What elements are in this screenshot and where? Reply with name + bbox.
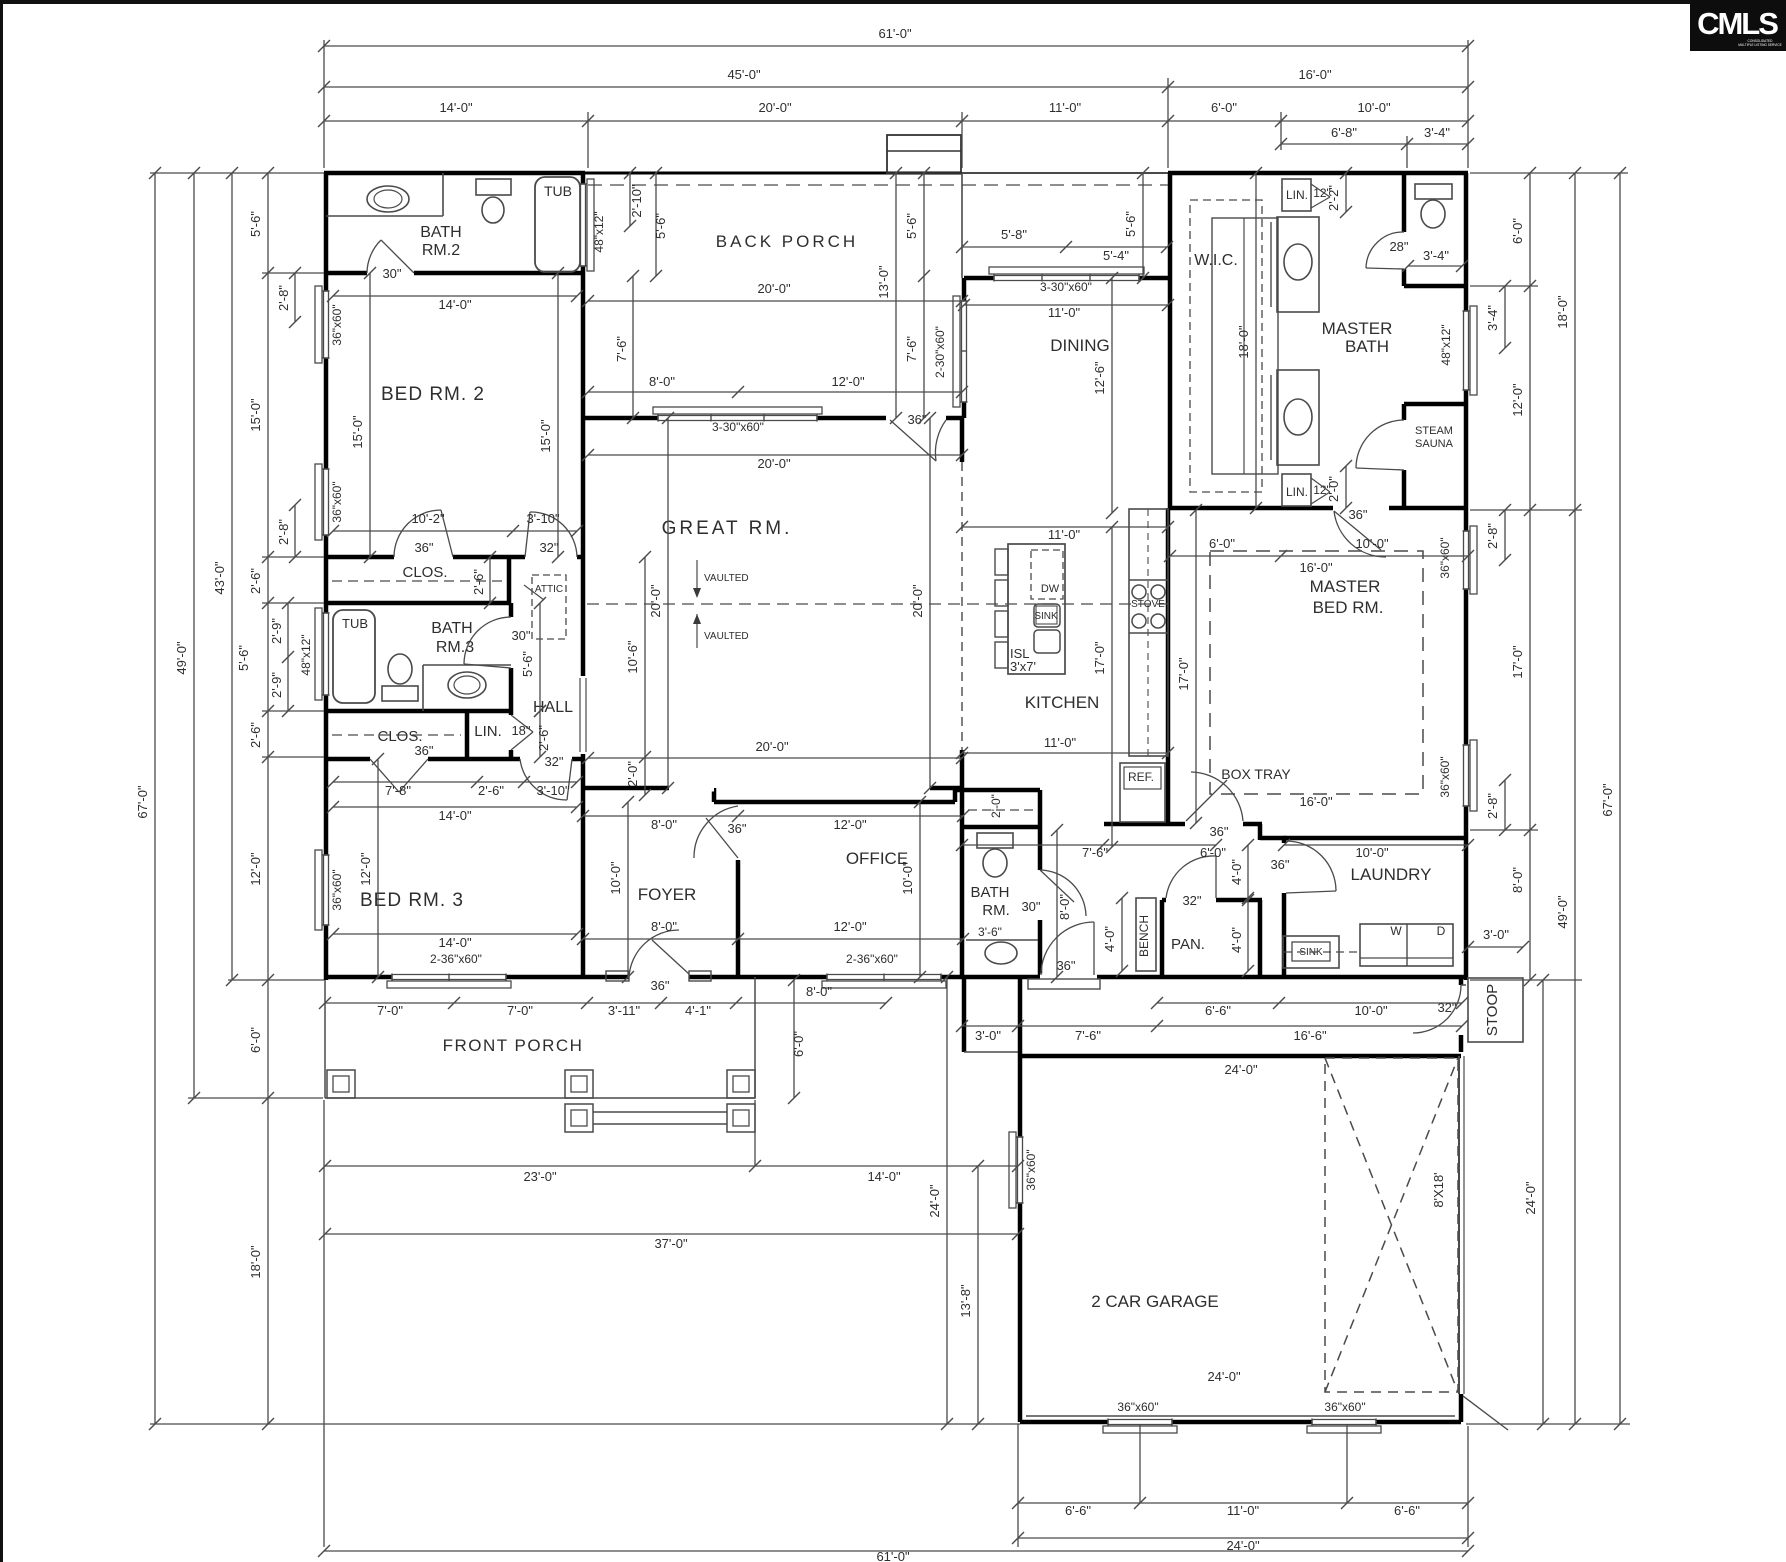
master vanity upper [1277, 217, 1319, 312]
svg-text:16'-0": 16'-0" [1298, 67, 1332, 82]
dim 5'-6 hall bath3 [539, 603, 541, 711]
door 32 hall to bed rm3 [520, 756, 572, 763]
svg-text:15'-0": 15'-0" [350, 415, 365, 449]
svg-text:8'X18': 8'X18' [1431, 1172, 1446, 1207]
dim 14'-0 bed rm2 top [333, 295, 577, 297]
wall bath rm2 bottom [326, 271, 367, 276]
svg-text:BACK PORCH: BACK PORCH [716, 232, 858, 251]
svg-text:2'-8": 2'-8" [276, 519, 291, 545]
dim 5'-6 dining right [1142, 173, 1144, 278]
kitchen island stools [995, 549, 1008, 575]
window 2-30x60 dining west wall [961, 301, 968, 402]
dim 2'-0 master lower [1345, 466, 1347, 508]
wall jog master bed to laundry [1258, 824, 1263, 840]
wall hall/closet3 bottom [326, 757, 370, 762]
door 36 front entry [629, 974, 689, 981]
box tray dashed master bed [1210, 551, 1423, 794]
svg-text:36"x60": 36"x60" [330, 304, 344, 345]
ext lines top [323, 40, 325, 168]
svg-text:MASTER: MASTER [1322, 319, 1393, 338]
svg-text:12'-0": 12'-0" [1510, 383, 1525, 417]
wall closet2 bottom [326, 601, 511, 606]
svg-text:MULTIPLE LISTING SERVICE: MULTIPLE LISTING SERVICE [1738, 43, 1781, 47]
linen upper master [1282, 179, 1311, 211]
svg-text:12'-6": 12'-6" [1092, 361, 1107, 395]
porch columns row2 + steps [565, 1104, 593, 1132]
vaulted ridge dashed [587, 603, 1168, 605]
svg-text:2-30"x60": 2-30"x60" [933, 326, 947, 378]
dim right chain 6/12/17/8 [1529, 173, 1531, 980]
dim 49'-0 left [193, 173, 195, 1098]
wall foyer/office divider [736, 860, 741, 977]
svg-text:3'-4": 3'-4" [1423, 248, 1449, 263]
dim porch 6'-0 right [793, 980, 795, 1098]
dim 8/12 foyer office bottom [583, 938, 963, 940]
dim 67'-0 right [1619, 173, 1621, 1424]
svg-text:7'-6": 7'-6" [904, 336, 919, 362]
page border left [0, 0, 3, 1562]
wall master bed south [1243, 822, 1262, 827]
svg-text:48"x12": 48"x12" [592, 211, 606, 252]
window 2-36x60 office south wall [827, 974, 941, 981]
master toilet [1415, 184, 1452, 199]
vaulted arrows [696, 560, 698, 594]
svg-text:LIN.: LIN. [474, 723, 502, 740]
svg-text:12'-0": 12'-0" [358, 852, 373, 886]
svg-text:8'-0": 8'-0" [651, 817, 677, 832]
dim 5'-6 porch left sub [655, 173, 657, 276]
svg-text:11'-0": 11'-0" [1227, 1503, 1260, 1518]
svg-text:61'-0": 61'-0" [878, 26, 912, 41]
dim 13'-0 porch right [895, 173, 897, 418]
svg-text:PAN.: PAN. [1171, 936, 1205, 953]
wall closet2 east [507, 557, 512, 603]
svg-text:4'-0": 4'-0" [1229, 859, 1244, 885]
svg-text:STEAM: STEAM [1415, 425, 1453, 437]
svg-text:BED RM. 3: BED RM. 3 [360, 890, 464, 911]
wall garage east [1459, 977, 1464, 1052]
dim 2-8 subs right [1504, 510, 1506, 560]
svg-text:24'-0": 24'-0" [1523, 1181, 1538, 1215]
svg-text:18'-0": 18'-0" [1555, 295, 1570, 329]
svg-text:32": 32" [1182, 893, 1201, 908]
svg-text:17'-0": 17'-0" [1092, 641, 1107, 675]
svg-text:3'-4": 3'-4" [1485, 305, 1500, 331]
svg-text:6'-6": 6'-6" [1065, 1503, 1091, 1518]
svg-text:4'-1": 4'-1" [685, 1003, 711, 1018]
dim 20'-0 great rm bottom [588, 757, 962, 759]
svg-text:7'-6": 7'-6" [1082, 845, 1108, 860]
svg-text:DW: DW [1041, 583, 1060, 595]
wall powder bath east [1038, 790, 1043, 870]
window 48x12 bath rm2, wall x=583 [580, 184, 587, 266]
bath rm2 toilet [476, 179, 511, 195]
dim 20'-0 great rm top [588, 454, 962, 456]
svg-text:5'-6": 5'-6" [904, 213, 919, 239]
wall bath rm3 east [509, 603, 514, 617]
svg-text:BENCH: BENCH [1137, 915, 1151, 957]
dim 5-8/5-4 dining top [962, 246, 1167, 248]
dim 10-6/2-0 great rm left [644, 557, 646, 795]
bath rm3 vanity + sink [423, 664, 511, 666]
page border top [0, 0, 1786, 4]
svg-text:KITCHEN: KITCHEN [1025, 693, 1100, 712]
dim 23/14 bottom [325, 1165, 1018, 1167]
svg-text:FRONT PORCH: FRONT PORCH [443, 1036, 584, 1055]
svg-text:7'-0": 7'-0" [377, 1003, 403, 1018]
svg-text:8'-0": 8'-0" [1510, 867, 1525, 893]
svg-text:FOYER: FOYER [638, 885, 697, 904]
svg-text:7'-0": 7'-0" [507, 1003, 533, 1018]
svg-text:20'-0": 20'-0" [755, 739, 789, 754]
wall linen closet [465, 711, 470, 759]
bath rm2 vanity + sink [326, 215, 443, 217]
wall garage west [1018, 977, 1023, 1422]
closet3 shelf dashed [332, 734, 461, 736]
svg-text:2'-8": 2'-8" [276, 285, 291, 311]
wall great rm top (porch south) [585, 416, 886, 421]
svg-text:17'-0": 17'-0" [1176, 657, 1191, 691]
svg-text:REF.: REF. [1128, 770, 1154, 784]
svg-text:20'-0": 20'-0" [758, 100, 792, 115]
svg-text:3-30"x60": 3-30"x60" [1040, 280, 1092, 294]
linen lower master [1282, 474, 1311, 506]
dim 3-4 sub right [1504, 286, 1506, 348]
svg-text:12'-0": 12'-0" [831, 374, 865, 389]
svg-text:16'-0": 16'-0" [1299, 560, 1333, 575]
svg-text:36": 36" [1348, 507, 1367, 522]
svg-text:SINK: SINK [1034, 611, 1058, 622]
svg-text:RM.2: RM.2 [422, 242, 460, 259]
wall garage top [1020, 1054, 1461, 1059]
svg-text:18": 18" [511, 723, 530, 738]
dim 2'-10 porch sub [629, 173, 631, 226]
svg-text:6'-0": 6'-0" [1510, 218, 1525, 244]
svg-text:3'-11": 3'-11" [608, 1003, 641, 1018]
svg-text:RM.: RM. [982, 902, 1010, 919]
svg-text:2'-2": 2'-2" [1326, 185, 1341, 211]
svg-text:49'-0": 49'-0" [174, 641, 189, 675]
window 48x12 master bath east wall [1463, 311, 1470, 390]
closet2 shelf dashed [332, 580, 505, 582]
svg-text:10'-0": 10'-0" [900, 861, 915, 895]
svg-text:36"x60": 36"x60" [330, 481, 344, 522]
svg-text:CLOS.: CLOS. [402, 564, 447, 581]
svg-text:36": 36" [1270, 857, 1289, 872]
dim 7'-6 porch left [632, 276, 634, 418]
wic shelving [1190, 200, 1262, 492]
laundry washer dryer [1360, 924, 1453, 966]
door 30 powder bath [1037, 870, 1044, 920]
svg-text:2-36"x60": 2-36"x60" [846, 952, 898, 966]
ext lines bottom [323, 1100, 325, 1547]
door 30 bath rm2 [367, 270, 414, 277]
svg-text:36": 36" [650, 978, 669, 993]
wall dining west [962, 278, 967, 418]
svg-text:6'-0": 6'-0" [248, 1027, 263, 1053]
dim 20'-0 great rm verticals [667, 418, 669, 788]
svg-text:32": 32" [1437, 1000, 1456, 1015]
dim left segment chain [267, 173, 269, 1424]
wall exterior south [326, 975, 1468, 980]
wall kitchen south / walkway [1104, 822, 1185, 827]
dim 24'-0 right garage [1542, 980, 1544, 1424]
window 48x12 bath rm3, left wall [323, 613, 330, 695]
svg-text:2'-9": 2'-9" [269, 618, 284, 644]
dim 10-2/3-10 bed rm2 bottom [333, 530, 577, 532]
svg-text:20'-0": 20'-0" [757, 281, 791, 296]
dim 10'-0 laundry [1284, 844, 1468, 846]
svg-text:36"x60": 36"x60" [1024, 1149, 1038, 1190]
dim 10'-0 foyer vert / office [627, 802, 629, 977]
svg-text:2 CAR GARAGE: 2 CAR GARAGE [1091, 1292, 1219, 1311]
wall laundry top [1284, 836, 1468, 841]
wall pantry top [1162, 898, 1166, 903]
svg-text:DINING: DINING [1050, 336, 1110, 355]
dim 45/16 top [324, 86, 1468, 88]
door 28 master toilet room [1401, 232, 1408, 269]
window 36x60 bed rm3, left wall [323, 855, 330, 925]
svg-text:HALL: HALL [533, 699, 573, 716]
wall master suite bottom y=508 [1170, 506, 1333, 511]
svg-text:11'-0": 11'-0" [1048, 305, 1081, 320]
svg-text:2'-0": 2'-0" [625, 761, 640, 787]
svg-text:6'-0": 6'-0" [1200, 845, 1226, 860]
svg-text:GREAT RM.: GREAT RM. [662, 518, 793, 539]
svg-text:2'-6": 2'-6" [536, 725, 551, 751]
svg-text:10'-2": 10'-2" [411, 511, 445, 526]
svg-text:10'-6": 10'-6" [625, 640, 640, 674]
svg-text:15'-0": 15'-0" [538, 419, 553, 453]
wall bed rm2 bottom [326, 555, 394, 560]
dim 61'-0 top [324, 45, 1468, 47]
svg-text:BATH: BATH [1345, 337, 1389, 356]
svg-text:BED RM. 2: BED RM. 2 [381, 384, 485, 405]
window 36x60 garage west wall [1017, 1137, 1024, 1203]
svg-text:15'-0": 15'-0" [248, 398, 263, 432]
svg-text:3'x7': 3'x7' [1010, 659, 1036, 674]
dim 14'-0 bed rm3 spans [333, 806, 577, 808]
svg-text:32": 32" [539, 540, 558, 555]
dim 3'-0 stoop [1468, 946, 1523, 948]
svg-text:6'-8": 6'-8" [1331, 125, 1357, 140]
window 3-30x60 great rm top wall [658, 415, 817, 422]
svg-text:2'-10": 2'-10" [629, 184, 644, 218]
window 36x60 master bed east lower [1463, 745, 1470, 806]
dim 8/12 porch bottom [588, 391, 962, 393]
svg-text:36": 36" [414, 743, 433, 758]
svg-text:3'-4": 3'-4" [1424, 125, 1450, 140]
svg-text:W.I.C.: W.I.C. [1194, 252, 1238, 269]
svg-text:5'-6": 5'-6" [520, 651, 535, 677]
svg-text:43'-0": 43'-0" [212, 561, 227, 595]
svg-text:36": 36" [1056, 958, 1075, 973]
laundry sink [1283, 936, 1339, 968]
door 36 bed rm2 [394, 554, 453, 561]
svg-text:17'-0": 17'-0" [1510, 645, 1525, 679]
door steam sauna [1401, 420, 1408, 470]
wall powder bath top [962, 825, 1040, 830]
dim 24'-0 garage bottom line [1018, 1537, 1468, 1539]
dim 8'-0 mud hall vert [1056, 830, 1058, 977]
svg-text:3'-0": 3'-0" [975, 1028, 1001, 1043]
svg-text:32": 32" [544, 754, 563, 769]
svg-text:11'-0": 11'-0" [1048, 527, 1081, 542]
powder toilet [977, 833, 1013, 848]
dim 61'-0 bottom [324, 1550, 1468, 1552]
door 36 closet bed rm3 [370, 756, 428, 763]
svg-text:SAUNA: SAUNA [1415, 438, 1454, 450]
dim 2-8 sub window1 [294, 273, 296, 322]
window 3-30x60 dining top wall [994, 275, 1139, 282]
svg-text:CLOS.: CLOS. [377, 728, 422, 745]
dim 8/12 foyer office top [583, 815, 963, 817]
svg-text:VAULTED: VAULTED [704, 573, 749, 584]
svg-text:2'-6": 2'-6" [471, 569, 486, 595]
laundry counter dashed [1284, 951, 1360, 953]
master vanity lower [1277, 370, 1319, 465]
window 36x60 bed rm2 upper, left wall [323, 291, 330, 358]
svg-text:7'-6": 7'-6" [1075, 1028, 1101, 1043]
svg-text:14'-0": 14'-0" [439, 100, 473, 115]
svg-text:CMLS: CMLS [1697, 6, 1778, 41]
svg-text:RM.3: RM.3 [436, 639, 474, 656]
dim 2-8 sub window2 [294, 505, 296, 557]
ext lines left [150, 172, 324, 174]
svg-text:45'-0": 45'-0" [727, 67, 761, 82]
svg-text:36"x60": 36"x60" [1117, 1400, 1158, 1414]
dim 67'-0 left [154, 173, 156, 1424]
svg-text:16'-6": 16'-6" [1293, 1028, 1327, 1043]
wall exterior right (master suite) [1464, 173, 1469, 980]
svg-text:30": 30" [511, 628, 530, 643]
wall exterior top [324, 171, 585, 176]
wall left-wing east x=583 [581, 173, 586, 557]
svg-text:28": 28" [1389, 239, 1408, 254]
svg-text:5'-6": 5'-6" [1123, 211, 1138, 237]
svg-text:14'-0": 14'-0" [438, 808, 472, 823]
garage door 8x18 dashed X [1325, 1058, 1458, 1392]
svg-text:8'-0": 8'-0" [1057, 894, 1072, 920]
svg-text:36": 36" [1209, 824, 1228, 839]
svg-text:36": 36" [414, 540, 433, 555]
wall master suite west x=1170 [1168, 173, 1173, 510]
dim garage window chain [1018, 1502, 1468, 1504]
svg-text:49'-0": 49'-0" [1555, 895, 1570, 929]
svg-text:2'-8": 2'-8" [1485, 523, 1500, 549]
wall great rm east / kitchen west x=962 [960, 418, 965, 462]
svg-text:TUB: TUB [544, 183, 572, 199]
mud bench [1136, 898, 1156, 971]
svg-text:3'-10": 3'-10" [526, 511, 560, 526]
window 36x60 garage south 2 [1312, 1419, 1376, 1426]
svg-text:10'-0": 10'-0" [1355, 536, 1389, 551]
svg-text:10'-0": 10'-0" [1354, 1003, 1388, 1018]
chimney back porch [887, 135, 961, 173]
svg-text:14'-0": 14'-0" [438, 297, 472, 312]
door 36 back porch to great rm [886, 415, 946, 422]
svg-text:10'-0": 10'-0" [1357, 100, 1391, 115]
bath rm3 tub [333, 610, 375, 703]
svg-text:10'-0": 10'-0" [608, 861, 623, 895]
svg-text:14'-0": 14'-0" [867, 1169, 901, 1184]
powder sink [966, 939, 1038, 941]
wall kitchen/master bed divider x=1168 [1166, 508, 1171, 825]
dim 20'-0 back porch [588, 300, 962, 302]
dim 6/10 master suite bottom [1170, 555, 1468, 557]
wall office top [714, 800, 955, 805]
svg-text:5'-4": 5'-4" [1103, 248, 1129, 263]
svg-text:2'-6": 2'-6" [248, 568, 263, 594]
svg-text:36"x60": 36"x60" [330, 869, 344, 910]
door 32 stoop to garage walk [1458, 985, 1465, 1035]
dim 2-9 subs bath3 [287, 603, 289, 711]
dim 14/20/11/6/10 top [324, 120, 1468, 122]
svg-text:W: W [1390, 924, 1402, 938]
svg-text:14'-0": 14'-0" [438, 935, 472, 950]
wall breezeway west [962, 977, 967, 1052]
roof overhang dashed back porch [588, 184, 1168, 186]
door 18 linen [508, 715, 515, 750]
garage apron diagonal [1463, 1396, 1508, 1430]
svg-text:6'-6": 6'-6" [1205, 1003, 1231, 1018]
svg-text:BATH: BATH [971, 884, 1010, 901]
kitchen counter right + stove [1129, 509, 1168, 756]
svg-text:30": 30" [1021, 899, 1040, 914]
svg-text:D: D [1437, 924, 1446, 938]
wall laundry west [1282, 838, 1287, 977]
dim 4'-0 subs mud [1247, 845, 1249, 898]
stoop [1468, 978, 1523, 1042]
dim 17'-0 kitchen vert [1111, 527, 1113, 847]
svg-text:8'-0": 8'-0" [651, 919, 677, 934]
wall exterior left [324, 173, 329, 980]
door 32 pantry [1166, 897, 1216, 904]
svg-text:8'-0": 8'-0" [806, 984, 832, 999]
svg-text:12'-0": 12'-0" [248, 852, 263, 886]
front porch outline [324, 980, 326, 1098]
wall pantry east [1258, 900, 1263, 977]
svg-text:20'-0": 20'-0" [757, 456, 791, 471]
svg-text:10'-0": 10'-0" [1355, 845, 1389, 860]
svg-text:30": 30" [382, 266, 401, 281]
dim 5'-6 / 7'-6 porch right chain [923, 173, 925, 418]
wall great rm bottom / foyer top [583, 786, 669, 791]
svg-text:20'-0": 20'-0" [648, 584, 663, 618]
svg-text:36"x60": 36"x60" [1438, 756, 1452, 797]
svg-text:MASTER: MASTER [1310, 577, 1381, 596]
svg-text:2-36"x60": 2-36"x60" [430, 952, 482, 966]
wall garage bottom [1020, 1420, 1461, 1425]
dim 7-8/2-6/3-10 hall bottom chain [333, 781, 577, 783]
svg-text:3'-6": 3'-6" [978, 925, 1002, 939]
svg-text:2'-6": 2'-6" [478, 783, 504, 798]
kitchen refrigerator [1120, 763, 1165, 822]
svg-text:12'-0": 12'-0" [833, 919, 867, 934]
svg-text:48"x12": 48"x12" [1439, 324, 1453, 365]
dim 6-6/10 breezeway [1157, 1002, 1462, 1004]
dim 2'-2 master [1345, 173, 1347, 212]
svg-text:23'-0": 23'-0" [523, 1169, 557, 1184]
open passage foyer to great rm [669, 785, 714, 792]
svg-text:12'-0": 12'-0" [833, 817, 867, 832]
dim 6-8/3-4 top sub [1281, 143, 1468, 145]
svg-text:4'-0": 4'-0" [1102, 926, 1117, 952]
door 32 hall to bed rm2 [525, 554, 577, 561]
door 36 kitchen walkway to master bed [1185, 821, 1243, 828]
svg-text:5'-6": 5'-6" [248, 211, 263, 237]
svg-text:2'-0": 2'-0" [1326, 476, 1341, 502]
